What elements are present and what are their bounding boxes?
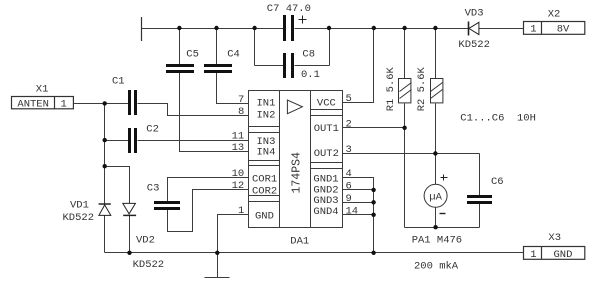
capacitor C2 [128, 128, 137, 153]
label IC pin name IN3 [257, 136, 276, 148]
wire GND4 pin 14 stub [343, 214, 374, 216]
wire top rail left segment [142, 28, 284, 30]
svg-text:174PS4: 174PS4 [291, 152, 304, 194]
label X3 pin number 1 [530, 249, 536, 261]
svg-text:9: 9 [346, 193, 352, 205]
svg-text:X2: X2 [548, 9, 561, 21]
svg-text:KD522: KD522 [458, 39, 490, 51]
svg-text:COR2: COR2 [252, 186, 277, 198]
svg-text:IN4: IN4 [257, 147, 276, 159]
svg-text:C1...C6 10H: C1...C6 10H [460, 112, 536, 124]
wire meter bottom line [405, 227, 480, 229]
label pin number 7 [238, 94, 244, 106]
capacitor C7 [283, 15, 294, 41]
wire C6 top [479, 154, 481, 196]
svg-text:C3: C3 [147, 183, 160, 195]
node C2 branch [103, 138, 107, 142]
label X3 pin name GND [554, 249, 573, 261]
label VD1 [70, 200, 89, 212]
wire left vertical bus [104, 104, 106, 204]
label pin number 12 [232, 180, 245, 192]
wire C7 C8 right vertical [329, 29, 331, 66]
capacitor C4 [204, 64, 232, 73]
label IC pin name VCC [317, 98, 336, 110]
node bottom rail ground [215, 251, 219, 255]
label C2 [146, 124, 159, 136]
label IC pin name OUT1 [314, 123, 339, 135]
node bottom rail VD2 [127, 251, 131, 255]
svg-text:C8: C8 [302, 49, 315, 61]
label IC pin name GND1 [313, 174, 338, 186]
node GND bus pin 9 [371, 200, 375, 204]
label 200 mkA [414, 261, 459, 273]
wire OUT2 pin 3 line [343, 153, 480, 155]
wire R2 top [435, 29, 437, 79]
wire VD2 bottom [129, 216, 131, 253]
svg-text:C6: C6 [491, 176, 504, 188]
svg-text:VD3: VD3 [465, 8, 484, 20]
connector X3 [524, 247, 585, 260]
ground [205, 253, 230, 278]
svg-text:8: 8 [238, 106, 244, 118]
svg-text:R2 5.6K: R2 5.6K [416, 66, 428, 111]
svg-text:C7 47.0: C7 47.0 [267, 3, 311, 15]
label pin number 5 [346, 93, 352, 105]
node rail C5 [177, 26, 181, 30]
svg-text:10: 10 [232, 168, 245, 180]
label pin number 10 [232, 168, 245, 180]
svg-text:3: 3 [346, 144, 352, 156]
label pin number 13 [232, 142, 245, 154]
capacitor C3 [154, 201, 180, 210]
svg-text:1: 1 [238, 205, 244, 217]
svg-text:C1: C1 [112, 76, 125, 88]
label IC pin name GND4 [313, 206, 338, 218]
wire GND1 pin 4 stub [343, 178, 374, 253]
wire VD2 branch [105, 167, 130, 204]
label pin number 3 [346, 144, 352, 156]
capacitor C6 [467, 195, 492, 204]
svg-text:GND: GND [255, 211, 274, 223]
wire C1 left stub [105, 103, 129, 105]
svg-text:8V: 8V [557, 23, 570, 35]
svg-text:µA: µA [429, 192, 442, 204]
wire pin 12 to C3 bottom [168, 190, 249, 232]
svg-text:X1: X1 [36, 84, 49, 96]
label C8 value [301, 69, 320, 81]
label VD3 [465, 8, 484, 20]
svg-text:GND4: GND4 [313, 206, 338, 218]
wire GND2 pin 6 stub [343, 189, 374, 191]
wire VCC pin 5 to rail [343, 29, 374, 103]
node rail C4 [214, 26, 218, 30]
node OUT2 R2 [433, 151, 437, 155]
svg-text:C5: C5 [186, 49, 199, 61]
capacitor C8 [283, 53, 294, 78]
meter PA1 plus sign [441, 175, 448, 181]
label IC pin name GND3 [313, 195, 338, 207]
node A X1 C1 [103, 101, 107, 105]
wire meter bottom [435, 208, 437, 228]
label IC pin name IN1 [257, 98, 276, 110]
label C1 to C6 note [460, 112, 536, 124]
svg-text:1: 1 [530, 23, 536, 35]
wire X1 to node A [74, 103, 105, 105]
node VD2 branch [103, 164, 107, 168]
node GND bus pin 14 [371, 213, 375, 217]
svg-text:IN2: IN2 [257, 109, 276, 121]
wire R1 top [404, 29, 406, 79]
label VD2 [136, 235, 155, 247]
wire C7 C8 left vertical [254, 29, 256, 66]
svg-text:OUT2: OUT2 [314, 148, 339, 160]
wire R1 bottom to meter bottom line [404, 104, 406, 228]
label pin number 2 [346, 118, 352, 130]
wire bottom rail [105, 252, 524, 254]
diode VD1 [99, 204, 111, 215]
resistor R1 [399, 79, 412, 103]
node OUT1 R1 [402, 126, 406, 130]
svg-text:12: 12 [232, 180, 245, 192]
svg-text:IN1: IN1 [257, 98, 276, 110]
label X3 [548, 232, 561, 244]
svg-text:0.1: 0.1 [301, 69, 320, 81]
svg-text:VD1: VD1 [70, 200, 89, 212]
label C5 [186, 49, 199, 61]
resistor R2 [431, 79, 443, 103]
wire C5 down to pin 13 [180, 73, 249, 152]
label pin number 4 [346, 168, 352, 180]
op-amp triangle inside DA1 [287, 100, 302, 114]
svg-text:1: 1 [61, 99, 67, 111]
label X1 [36, 84, 49, 96]
svg-text:KD522: KD522 [133, 259, 165, 271]
svg-text:OUT1: OUT1 [314, 123, 339, 135]
node rail VCC [372, 26, 376, 30]
label pin number 1 [238, 205, 244, 217]
label C3 [147, 183, 160, 195]
wire C8 left segment [255, 65, 284, 67]
node GND bus pin 6 [371, 188, 375, 192]
svg-text:COR1: COR1 [252, 174, 277, 186]
wire R2 bottom [435, 104, 437, 154]
svg-text:VCC: VCC [317, 98, 336, 110]
connector X1 [12, 97, 74, 109]
label R1 value [385, 66, 397, 111]
node junction dots [103, 26, 438, 255]
label R2 value [416, 66, 428, 111]
wire OUT1 pin 2 stub [343, 127, 405, 129]
label X2 pin number 1 [530, 23, 536, 35]
label DA1 [290, 236, 309, 248]
svg-text:ANTEN: ANTEN [17, 99, 49, 111]
label VD1 type KD522 [63, 212, 95, 224]
meter PA1 [424, 184, 447, 207]
node rail C7 left [252, 26, 256, 30]
wire C8 right segment [295, 65, 330, 67]
svg-text:KD522: KD522 [63, 212, 95, 224]
label IC pin name OUT2 [314, 148, 339, 160]
svg-text:GND: GND [554, 249, 573, 261]
label IC pin name GND2 [313, 184, 338, 196]
node rail C7 right [327, 26, 331, 30]
connector X2 [524, 22, 585, 35]
svg-text:200 mkA: 200 mkA [414, 261, 459, 273]
label X1 pin name ANTEN [17, 99, 49, 111]
label pin number 11 [232, 131, 245, 143]
wire C4 from rail [216, 29, 218, 65]
label 174PS4 [291, 152, 304, 194]
capacitor C1 [128, 90, 137, 115]
diode VD2 [123, 203, 136, 215]
wire C5 from rail [179, 29, 181, 65]
label X2 [548, 9, 561, 21]
svg-text:2: 2 [346, 118, 352, 130]
label C8 [302, 49, 315, 61]
svg-text:C2: C2 [146, 124, 159, 136]
label PA1 M476 [412, 235, 462, 247]
wire C2 to pin 11 [138, 140, 249, 142]
label pin number 9 [346, 193, 352, 205]
label IC pin name COR2 [252, 186, 277, 198]
node bottom rail GND bus [371, 251, 375, 255]
label IC pin name GND [255, 211, 274, 223]
svg-text:7: 7 [238, 94, 244, 106]
wire top rail right segment [295, 28, 469, 30]
wire C6 bottom [479, 204, 481, 228]
node rail R1 [402, 26, 406, 30]
terminal bar left rail end [141, 17, 143, 41]
label pin number 8 [238, 106, 244, 118]
svg-text:C4: C4 [227, 49, 240, 61]
svg-text:11: 11 [232, 131, 245, 143]
wire meter top [435, 154, 437, 185]
svg-text:DA1: DA1 [290, 236, 309, 248]
wire VD3 to X2 [479, 28, 524, 30]
svg-text:PA1 M476: PA1 M476 [412, 235, 462, 247]
svg-text:5: 5 [346, 93, 352, 105]
label meter unit uA [429, 192, 442, 204]
label pin number 14 [346, 205, 359, 217]
label VD3 type KD522 [458, 39, 490, 51]
label IC pin name IN4 [257, 147, 276, 159]
label pin number 6 [346, 180, 352, 192]
wire C1 to pin 8 zigzag [138, 104, 249, 116]
label VD2 type KD522 [133, 259, 165, 271]
label X2 pin name 8V [557, 23, 570, 35]
label IC pin name IN2 [257, 109, 276, 121]
label C7 value [267, 3, 311, 15]
op-amp U1 IC DA1 box [249, 91, 343, 228]
svg-text:1: 1 [530, 249, 536, 261]
node meter bottom [433, 225, 437, 229]
label C4 [227, 49, 240, 61]
svg-text:4: 4 [346, 168, 352, 180]
svg-text:14: 14 [346, 205, 359, 217]
svg-text:13: 13 [232, 142, 245, 154]
label X1 pin number 1 [61, 99, 67, 111]
label C6 [491, 176, 504, 188]
svg-text:R1 5.6K: R1 5.6K [385, 66, 397, 111]
wire pin 10 to C3 top [168, 178, 249, 202]
label IC pin name COR1 [252, 174, 277, 186]
svg-text:6: 6 [346, 180, 352, 192]
meter PA1 minus sign [440, 213, 446, 215]
diode VD3 [469, 22, 479, 36]
wire VD1 bottom [104, 216, 106, 253]
svg-text:X3: X3 [548, 232, 561, 244]
wire C4 down to pin 7 [217, 73, 249, 104]
wire pin 1 GND to bottom rail [218, 215, 249, 253]
wire C2 left stub [105, 140, 129, 142]
wire GND3 pin 9 stub [343, 202, 374, 204]
label C1 [112, 76, 125, 88]
capacitor C5 [166, 64, 194, 73]
node rail R2 [433, 26, 437, 30]
svg-text:VD2: VD2 [136, 235, 155, 247]
label C7 plus [299, 16, 307, 24]
